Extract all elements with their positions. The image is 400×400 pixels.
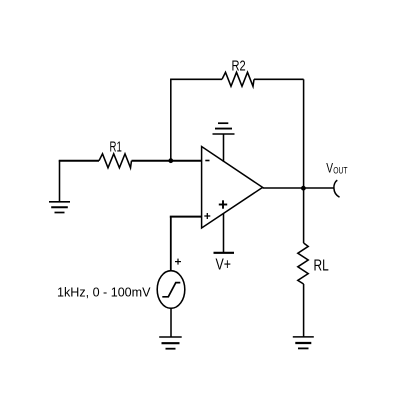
- node junction at inverting input: [168, 158, 173, 163]
- ground (above op-amp, inverted): [213, 123, 235, 134]
- output probe arc: [334, 180, 340, 197]
- wire feedback vertical left: [170, 79, 172, 160]
- pin positive supply (bottom): [223, 213, 225, 252]
- plus sign (non-inverting input): [204, 213, 210, 219]
- svg-text:R2: R2: [232, 58, 246, 75]
- ramp symbol inside source: [162, 283, 180, 297]
- svg-text:RL: RL: [314, 257, 329, 274]
- wire feedback top right horizontal: [254, 78, 304, 80]
- source V1 (signal generator): [157, 271, 185, 309]
- wire feedback vertical right down to output: [303, 79, 305, 188]
- wire source bottom to ground: [170, 308, 172, 337]
- resistor R2: [222, 72, 254, 86]
- ground (below source): [159, 337, 182, 349]
- pin negative supply (top): [223, 134, 225, 162]
- ground (below RL): [293, 337, 314, 349]
- wire input horizontal (left of R1): [59, 160, 99, 162]
- op-amp U1 triangle: [202, 147, 263, 229]
- minus sign (inverting input): [205, 160, 209, 162]
- wire non-inverting input horizontal: [170, 216, 202, 218]
- ground (left, under input wire): [49, 202, 70, 213]
- node output junction: [301, 186, 306, 191]
- wire input horizontal (R1 to op-amp inverting input): [132, 160, 202, 162]
- plus sign (positive supply, inside triangle): [219, 200, 227, 208]
- wire left vertical to ground: [59, 160, 61, 201]
- plus polarity mark at source top: [175, 259, 181, 265]
- svg-text:V+: V+: [216, 257, 232, 274]
- wire feedback top left horizontal: [170, 78, 222, 80]
- resistor R1: [99, 154, 132, 168]
- wire vertical down to source: [170, 217, 172, 271]
- svg-text:R1: R1: [110, 139, 122, 156]
- resistor RL: [298, 243, 308, 284]
- wire RL bottom to ground: [303, 284, 305, 337]
- svg-text:1kHz, 0 - 100mV: 1kHz, 0 - 100mV: [57, 286, 151, 300]
- V+ rail bar: [214, 252, 235, 254]
- svg-text:OUT: OUT: [333, 165, 348, 175]
- wire output horizontal: [263, 187, 334, 189]
- wire output down to RL: [303, 188, 305, 243]
